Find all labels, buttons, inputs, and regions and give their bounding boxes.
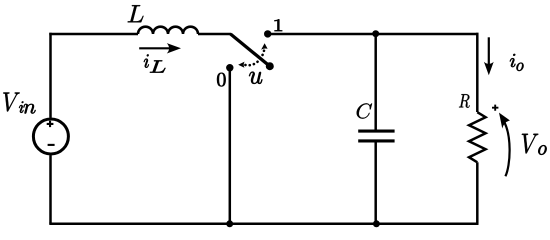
voltage arc arrowhead <box>499 113 510 129</box>
capacitor C top plate <box>358 130 394 133</box>
switch lever tip dot <box>266 62 274 70</box>
plus sign at resistor top (Vo polarity) <box>492 105 498 111</box>
junction dot bottom right (capacitor branch) <box>373 220 380 227</box>
wire: capacitor branch lower <box>374 141 377 224</box>
inductor L (4 humps) <box>138 27 198 34</box>
label 1 <box>275 19 283 31</box>
wire: left vertical upper (Vin top to circle) <box>49 33 52 118</box>
wire: inductor to switch bend <box>198 33 231 36</box>
capacitor C bottom plate <box>358 139 394 142</box>
voltage source plus sign <box>47 121 54 127</box>
voltage source minus sign <box>48 144 55 146</box>
wire: top rail right (switch 1 to right corner) <box>268 33 479 36</box>
junction dot top (capacitor tap) <box>372 30 379 37</box>
wire: top rail left (to inductor) <box>49 33 138 36</box>
wire: bottom rail <box>49 223 478 226</box>
label iL <box>144 54 149 67</box>
wire: left vertical lower (circle to bottom rail) <box>49 155 52 224</box>
current arrow io <box>488 37 490 66</box>
switch throw dot 0 <box>226 64 233 71</box>
label io <box>510 54 516 67</box>
wire: capacitor branch upper <box>374 34 377 131</box>
label R <box>459 94 470 108</box>
label C <box>357 103 372 118</box>
wire: right vertical lower <box>476 162 479 224</box>
label Vin <box>3 93 20 112</box>
voltage arc Vo <box>503 119 510 176</box>
label L <box>128 5 144 22</box>
wire: right vertical upper (to resistor) <box>476 33 479 112</box>
dashed arc arrowhead up (toward 1) <box>261 43 268 50</box>
label 0 <box>217 73 226 87</box>
wire: switch 0 branch vertical <box>229 68 232 224</box>
junction dot bottom left (switch 0 branch) <box>226 220 233 227</box>
dashed toggle arc u <box>245 50 264 65</box>
switch lever <box>231 34 270 66</box>
label u <box>249 72 262 84</box>
switch throw dot 1 <box>264 30 271 37</box>
label Vo <box>522 134 539 154</box>
resistor R zigzag <box>469 112 486 162</box>
dashed arc arrowhead left (toward 0) <box>238 62 244 68</box>
current arrow iL <box>139 47 170 49</box>
voltage source Vin circle <box>33 119 68 154</box>
